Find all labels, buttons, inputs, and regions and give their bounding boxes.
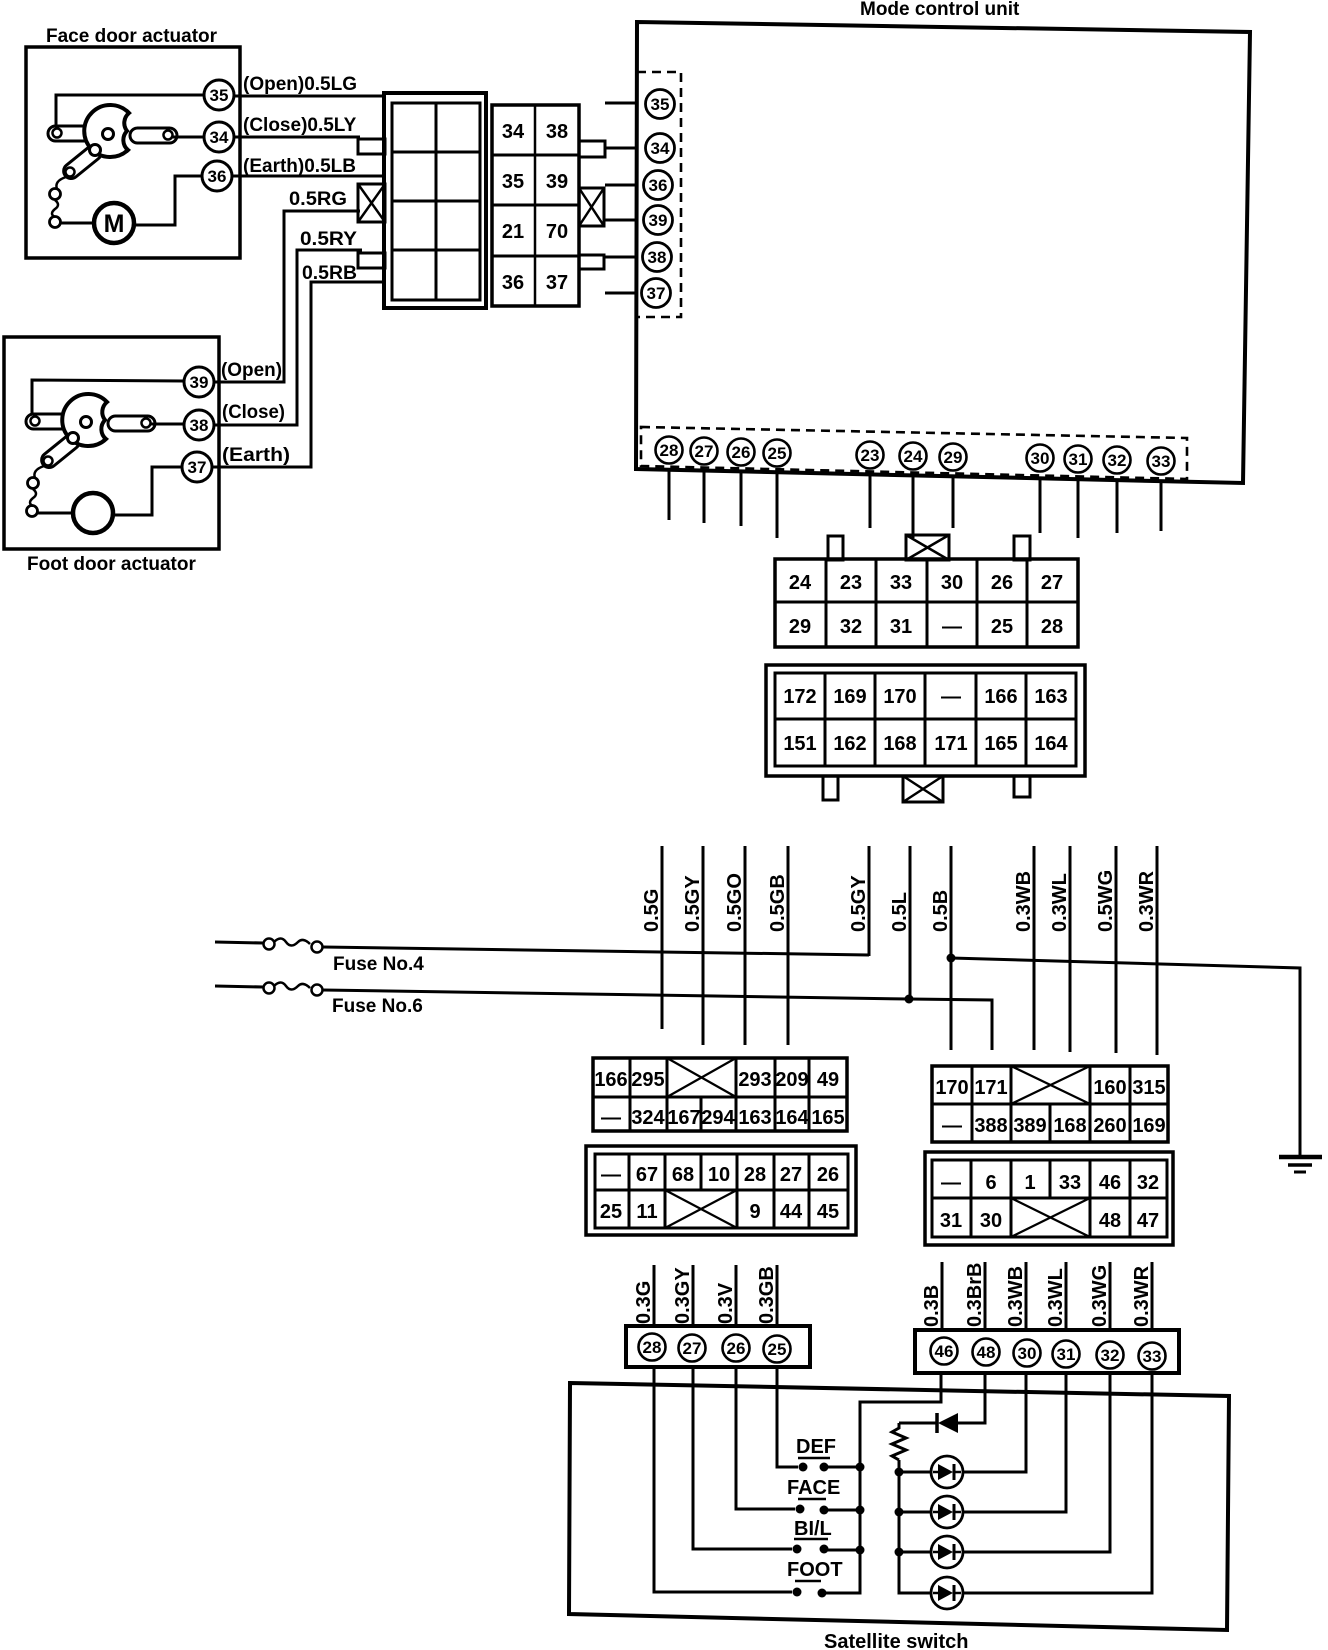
wire strip25 to DEF switch	[777, 1366, 798, 1467]
wire below pin25	[776, 472, 779, 538]
connector C1 tab lower-left	[358, 253, 385, 268]
svg-text:—: —	[601, 1164, 621, 1186]
strip pin 30	[1014, 1340, 1041, 1367]
wire 0.5RB foot37 to connector	[212, 282, 384, 467]
svg-text:32: 32	[1108, 451, 1127, 470]
svg-text:30: 30	[941, 572, 963, 594]
svg-text:FOOT: FOOT	[787, 1559, 843, 1581]
svg-text:25: 25	[991, 616, 1013, 638]
wire stub to unit pin38	[605, 256, 638, 259]
wire stub to unit pin35	[605, 102, 638, 105]
wire (face pin36 to motor)	[132, 176, 202, 225]
svg-text:28: 28	[643, 1338, 662, 1357]
connector table RB inner	[932, 1160, 1167, 1237]
svg-text:0.5WG: 0.5WG	[1095, 870, 1117, 932]
unit pin 34	[646, 134, 675, 163]
wire 0.3WR	[1156, 846, 1159, 1055]
svg-text:31: 31	[940, 1210, 962, 1232]
wire (foot pin39 to arm)	[32, 380, 184, 414]
svg-text:25: 25	[600, 1201, 622, 1223]
svg-text:0.5B: 0.5B	[930, 890, 952, 932]
svg-text:28: 28	[660, 441, 679, 460]
svg-text:27: 27	[780, 1164, 802, 1186]
svg-text:35: 35	[210, 86, 229, 105]
svg-text:Satellite switch: Satellite switch	[824, 1631, 969, 1650]
connector table LB inner	[595, 1154, 848, 1228]
svg-text:33: 33	[1152, 452, 1171, 471]
strip pin 25	[764, 1336, 791, 1363]
svg-text:0.3V: 0.3V	[715, 1282, 737, 1324]
unit pin 27	[691, 438, 718, 465]
wire LED1 to strip30	[963, 1374, 1026, 1472]
svg-text:0.3WR: 0.3WR	[1131, 1265, 1153, 1327]
svg-text:0.3G: 0.3G	[633, 1281, 655, 1324]
connector C1 outer frame	[384, 93, 486, 308]
unit pin 25	[764, 440, 791, 467]
svg-text:0.5GY: 0.5GY	[848, 875, 870, 932]
connector C1 keyway X left	[358, 184, 385, 222]
svg-text:M: M	[104, 210, 125, 238]
svg-text:6: 6	[985, 1172, 996, 1194]
svg-text:46: 46	[935, 1342, 954, 1361]
unit pin 23	[857, 442, 884, 469]
foot pin 38	[184, 410, 214, 440]
wire stub to unit pin39	[605, 219, 638, 222]
svg-text:—: —	[941, 1172, 961, 1194]
svg-text:170: 170	[883, 686, 916, 708]
svg-text:164: 164	[1034, 733, 1068, 755]
junction collector BI/L	[856, 1546, 865, 1555]
svg-text:0.3WB: 0.3WB	[1013, 871, 1035, 932]
svg-text:21: 21	[502, 221, 524, 243]
svg-text:Face door actuator: Face door actuator	[46, 26, 218, 47]
LED FOOT indicator	[931, 1577, 963, 1609]
wire strip46 collector	[826, 1374, 941, 1593]
strip pin 33	[1139, 1343, 1166, 1370]
strip pin 31	[1053, 1341, 1080, 1368]
svg-text:0.3WB: 0.3WB	[1005, 1266, 1027, 1327]
junction rail LED1	[895, 1468, 904, 1477]
foot pin 39	[184, 367, 214, 397]
svg-text:34: 34	[210, 128, 229, 147]
svg-text:—: —	[601, 1107, 621, 1129]
svg-text:165: 165	[811, 1107, 844, 1129]
foot actuator link chain	[34, 466, 44, 478]
wire 0.5LY pin34 to connector tab	[234, 136, 360, 139]
svg-text:1: 1	[1024, 1172, 1035, 1194]
mode unit dashed pin box left	[637, 72, 681, 317]
svg-text:38: 38	[546, 121, 568, 143]
svg-text:38: 38	[648, 248, 667, 267]
wire below pin30	[1039, 477, 1042, 533]
svg-text:0.3GB: 0.3GB	[756, 1266, 778, 1324]
svg-text:34: 34	[502, 121, 525, 143]
foot actuator lower arm	[39, 431, 83, 470]
svg-text:169: 169	[1132, 1115, 1165, 1137]
svg-text:0.3WG: 0.3WG	[1089, 1265, 1111, 1327]
wire LED2 to strip31	[963, 1374, 1066, 1512]
wire 0.3GB	[776, 1265, 779, 1327]
svg-text:45: 45	[817, 1201, 839, 1223]
svg-text:171: 171	[934, 733, 967, 755]
fuse No.4 symbol	[215, 942, 263, 943]
unit pin 32	[1104, 447, 1131, 474]
svg-text:23: 23	[840, 572, 862, 594]
svg-text:30: 30	[1031, 449, 1050, 468]
strip pin 27	[679, 1335, 706, 1362]
svg-text:0.3BrB: 0.3BrB	[964, 1263, 986, 1327]
wire strip27 to BI/L switch	[693, 1366, 792, 1549]
foot pin 37	[182, 452, 212, 482]
unit pin 31	[1065, 446, 1092, 473]
unit pin 38	[643, 243, 672, 272]
face actuator link chain	[56, 177, 66, 189]
unit pin 28	[656, 437, 683, 464]
svg-text:35: 35	[502, 171, 524, 193]
svg-text:39: 39	[546, 171, 568, 193]
wire 0.5WG	[1115, 846, 1118, 1053]
svg-text:0.5G: 0.5G	[641, 889, 663, 932]
svg-text:(Close): (Close)	[222, 402, 285, 423]
wire 0.5B to ground	[951, 958, 1300, 1156]
svg-text:27: 27	[683, 1339, 702, 1358]
wire LED3 to strip32	[963, 1374, 1110, 1552]
face pin 36	[202, 161, 232, 191]
wire below pin32	[1116, 479, 1119, 533]
LED BI/L indicator	[931, 1536, 963, 1568]
svg-text:388: 388	[974, 1115, 1007, 1137]
svg-text:36: 36	[649, 176, 668, 195]
connector table LB outer	[586, 1146, 856, 1235]
wire strip48 to diode	[958, 1374, 985, 1423]
wire strip28 to FOOT switch	[654, 1366, 792, 1592]
wire LED rail	[899, 1460, 931, 1593]
wire 0.5GY fuse4	[868, 846, 871, 956]
svg-text:36: 36	[502, 272, 524, 294]
connector T2 tab bottom-left	[823, 776, 838, 800]
svg-text:(Earth): (Earth)	[222, 445, 290, 466]
connector table T2 outer	[766, 665, 1085, 776]
svg-text:25: 25	[768, 1340, 787, 1359]
svg-text:165: 165	[984, 733, 1017, 755]
svg-text:34: 34	[651, 139, 670, 158]
connector C1 tab upper-left	[358, 139, 385, 154]
face pin 35	[204, 80, 234, 110]
wire strip26 to FACE switch	[736, 1366, 795, 1509]
svg-text:31: 31	[1069, 450, 1088, 469]
svg-text:—: —	[942, 1115, 962, 1137]
wire stub to unit pin34	[605, 147, 638, 150]
RB keyway X	[1011, 1198, 1090, 1237]
wire 0.3WG	[1109, 1262, 1112, 1331]
svg-text:32: 32	[1137, 1172, 1159, 1194]
unit pin 39	[644, 206, 673, 235]
svg-text:0.5GB: 0.5GB	[767, 874, 789, 932]
switch BI/L contacts	[793, 1545, 802, 1554]
wire (foot pin38 to arm)	[148, 423, 184, 426]
junction collector DEF	[856, 1463, 865, 1472]
connector T1 tab top-right	[1014, 536, 1030, 560]
svg-text:39: 39	[190, 373, 209, 392]
svg-text:Mode control unit: Mode control unit	[860, 0, 1020, 20]
svg-text:172: 172	[783, 686, 816, 708]
wire below pin24	[912, 475, 915, 538]
svg-text:167: 167	[667, 1107, 700, 1129]
resistor R1	[892, 1423, 906, 1460]
svg-text:44: 44	[780, 1201, 803, 1223]
svg-text:162: 162	[833, 733, 866, 755]
fuse No.6 symbol	[215, 986, 263, 987]
svg-text:—: —	[941, 686, 961, 708]
svg-text:47: 47	[1137, 1210, 1159, 1232]
ground symbol	[1279, 1155, 1322, 1160]
svg-text:(Earth)0.5LB: (Earth)0.5LB	[243, 156, 356, 177]
unit pin 36	[644, 171, 673, 200]
svg-text:(Close)0.5LY: (Close)0.5LY	[243, 115, 357, 136]
svg-text:BI/L: BI/L	[794, 1518, 832, 1540]
wire 0.3WR	[1151, 1262, 1154, 1331]
LED DEF indicator	[931, 1456, 963, 1488]
svg-text:24: 24	[789, 572, 812, 594]
svg-text:35: 35	[651, 95, 670, 114]
foot actuator cam	[62, 394, 107, 446]
svg-text:26: 26	[991, 572, 1013, 594]
svg-text:48: 48	[977, 1343, 996, 1362]
face door actuator box	[26, 47, 240, 258]
connector table T1	[775, 559, 1078, 647]
wire (face pin35 to arm)	[56, 95, 204, 127]
svg-text:—: —	[942, 616, 962, 638]
motor M face	[61, 222, 94, 225]
svg-text:26: 26	[732, 443, 751, 462]
svg-text:36: 36	[208, 167, 227, 186]
wire 0.5G	[661, 846, 664, 1029]
svg-text:33: 33	[1143, 1347, 1162, 1366]
svg-text:389: 389	[1013, 1115, 1046, 1137]
unit pin 30	[1027, 445, 1054, 472]
svg-text:295: 295	[631, 1069, 664, 1091]
svg-text:166: 166	[594, 1069, 627, 1091]
svg-text:Fuse No.4: Fuse No.4	[333, 954, 424, 975]
svg-text:29: 29	[944, 448, 963, 467]
strip pin 32	[1097, 1342, 1124, 1369]
svg-text:294: 294	[701, 1107, 735, 1129]
junction rail LED3	[895, 1548, 904, 1557]
foot actuator right arm	[108, 416, 155, 431]
svg-text:9: 9	[749, 1201, 760, 1223]
svg-text:293: 293	[738, 1069, 771, 1091]
svg-text:11: 11	[636, 1201, 657, 1223]
junction 0.5B/ground wire	[947, 954, 956, 963]
svg-text:0.5L: 0.5L	[889, 892, 911, 932]
wire stub to unit pin37	[605, 292, 638, 295]
face actuator lower arm	[61, 142, 105, 181]
svg-text:163: 163	[1034, 686, 1067, 708]
wire below pin33	[1160, 480, 1163, 531]
connector table LA (left upper)	[593, 1058, 847, 1131]
svg-text:0.5RG: 0.5RG	[289, 189, 347, 210]
svg-text:315: 315	[1132, 1077, 1165, 1099]
svg-text:0.3WL: 0.3WL	[1045, 1268, 1067, 1327]
unit pin 33	[1148, 448, 1175, 475]
strip pin 48	[973, 1339, 1000, 1366]
svg-text:30: 30	[1018, 1344, 1037, 1363]
svg-text:260: 260	[1093, 1115, 1126, 1137]
wire 0.3B	[941, 1262, 944, 1331]
face actuator cam	[84, 105, 129, 157]
svg-text:48: 48	[1099, 1210, 1121, 1232]
svg-text:37: 37	[546, 272, 568, 294]
connector T0 tab upper-right	[579, 141, 605, 157]
wire 0.5GO	[744, 846, 747, 1045]
connector table T2 inner	[775, 673, 1076, 766]
wire 0.3BrB	[984, 1262, 987, 1331]
junction collector FACE	[856, 1506, 865, 1515]
connector table RB outer	[925, 1152, 1173, 1245]
svg-text:209: 209	[775, 1069, 808, 1091]
connector T1 tab top-left	[828, 536, 843, 560]
svg-text:33: 33	[890, 572, 912, 594]
wire 0.3WL	[1069, 846, 1072, 1052]
svg-text:24: 24	[904, 447, 923, 466]
svg-text:37: 37	[188, 458, 207, 477]
wire fuse6 to pin171	[323, 990, 992, 1050]
wire (face pin34 to arm)	[170, 136, 204, 139]
svg-text:0.3GY: 0.3GY	[672, 1267, 694, 1324]
svg-text:0.5GY: 0.5GY	[682, 875, 704, 932]
svg-text:0.3WL: 0.3WL	[1049, 873, 1071, 932]
switch DEF contacts	[799, 1463, 808, 1472]
left strip connector	[626, 1326, 810, 1367]
LA keyway X	[667, 1058, 736, 1097]
svg-text:DEF: DEF	[796, 1436, 836, 1458]
wire below pin31	[1077, 478, 1080, 538]
wire 0.5B	[950, 846, 953, 1050]
unit pin 26	[728, 439, 755, 466]
face pin 34	[204, 122, 234, 152]
svg-text:(Open): (Open)	[221, 360, 282, 381]
wire stub to unit pin36	[605, 184, 638, 187]
svg-text:37: 37	[647, 284, 666, 303]
svg-text:33: 33	[1059, 1172, 1081, 1194]
LED FACE indicator	[931, 1496, 963, 1528]
svg-text:25: 25	[768, 444, 787, 463]
wire below pin27	[703, 470, 706, 523]
svg-text:170: 170	[935, 1077, 968, 1099]
connector T0 tab lower-right	[579, 255, 604, 269]
unit pin 29	[940, 444, 967, 471]
svg-text:32: 32	[1101, 1346, 1120, 1365]
wire below pin28	[668, 470, 671, 520]
svg-text:39: 39	[649, 211, 668, 230]
right strip connector	[915, 1330, 1179, 1373]
wire 0.3GY	[692, 1265, 695, 1327]
face actuator left arm	[48, 126, 92, 141]
connector T1 keyway X top	[906, 535, 949, 560]
mode unit dashed pin strip bottom	[641, 427, 1187, 479]
strip pin 28	[639, 1334, 666, 1361]
wire 0.5LG pin35 to connector	[234, 95, 385, 98]
svg-text:27: 27	[695, 442, 714, 461]
RA keyway X	[1011, 1066, 1090, 1104]
svg-text:10: 10	[708, 1164, 730, 1186]
svg-text:32: 32	[840, 616, 862, 638]
svg-text:164: 164	[775, 1107, 809, 1129]
svg-text:Foot door actuator: Foot door actuator	[27, 554, 196, 575]
wire 0.5RG foot39 to connector	[214, 211, 360, 382]
svg-text:324: 324	[631, 1107, 665, 1129]
unit pin 37	[642, 279, 671, 308]
svg-text:0.3B: 0.3B	[921, 1285, 943, 1327]
svg-text:151: 151	[783, 733, 816, 755]
svg-text:38: 38	[190, 416, 209, 435]
wire below pin29	[952, 476, 955, 528]
wire fuse4 to 0.5GY	[323, 947, 869, 955]
connector T0 keyway X right	[579, 188, 604, 226]
wire 0.5GB	[787, 846, 790, 1045]
wire 0.3WB	[1033, 846, 1036, 1050]
svg-text:168: 168	[1053, 1115, 1086, 1137]
wire 0.3V	[735, 1265, 738, 1327]
svg-text:FACE: FACE	[787, 1477, 840, 1499]
svg-text:0.5GO: 0.5GO	[724, 873, 746, 932]
svg-text:(Open)0.5LG: (Open)0.5LG	[243, 74, 357, 95]
svg-text:70: 70	[546, 221, 568, 243]
svg-text:168: 168	[883, 733, 916, 755]
svg-text:169: 169	[833, 686, 866, 708]
junction fuse6/0.5L	[905, 995, 914, 1004]
face actuator right arm	[130, 128, 177, 143]
connector T2 tab bottom-right	[1014, 776, 1030, 797]
motor foot	[38, 512, 73, 515]
LB keyway X	[665, 1190, 737, 1228]
svg-text:160: 160	[1093, 1077, 1126, 1099]
strip pin 46	[931, 1338, 958, 1365]
svg-text:0.5RY: 0.5RY	[300, 229, 357, 250]
foot door actuator box	[4, 337, 219, 549]
switch FOOT contacts	[793, 1588, 802, 1597]
wire 0.5L	[909, 846, 912, 999]
foot actuator left arm	[26, 414, 70, 429]
diode D1	[938, 1413, 958, 1433]
svg-text:68: 68	[672, 1164, 694, 1186]
svg-text:26: 26	[817, 1164, 839, 1186]
satellite switch box	[569, 1383, 1229, 1630]
connector table RA (right upper)	[932, 1066, 1168, 1142]
wire 0.3G	[653, 1265, 656, 1327]
wire LED4 to strip33	[963, 1374, 1152, 1593]
svg-text:23: 23	[861, 446, 880, 465]
svg-text:171: 171	[974, 1077, 1007, 1099]
svg-text:28: 28	[744, 1164, 766, 1186]
svg-text:166: 166	[984, 686, 1017, 708]
svg-text:27: 27	[1041, 572, 1063, 594]
mode control unit box	[636, 22, 1250, 483]
wire below pin23	[869, 474, 872, 528]
unit pin 24	[900, 443, 927, 470]
svg-text:31: 31	[890, 616, 912, 638]
svg-text:0.3WR: 0.3WR	[1136, 870, 1158, 932]
wire 0.5GY	[702, 846, 705, 1045]
unit pin 35	[646, 90, 675, 119]
wire (foot pin37 to motor)	[111, 467, 182, 515]
svg-text:67: 67	[636, 1164, 658, 1186]
svg-text:163: 163	[738, 1107, 771, 1129]
svg-text:26: 26	[727, 1339, 746, 1358]
connector pin table T0	[492, 105, 579, 306]
svg-text:Fuse No.6: Fuse No.6	[332, 996, 423, 1017]
svg-text:28: 28	[1041, 616, 1063, 638]
